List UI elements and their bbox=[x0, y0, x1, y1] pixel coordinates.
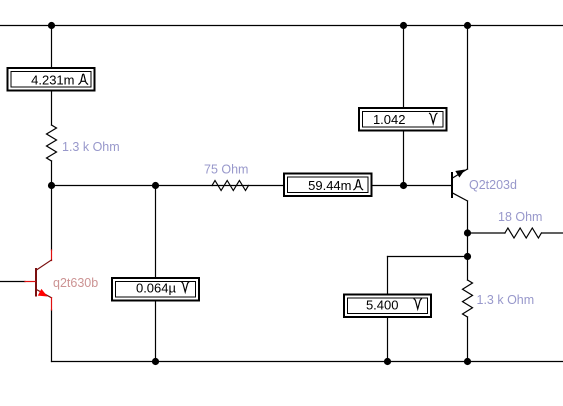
svg-text:1.3 k Ohm: 1.3 k Ohm bbox=[477, 293, 535, 307]
svg-text:4.231m: 4.231m bbox=[31, 73, 74, 88]
svg-text:18 Ohm: 18 Ohm bbox=[498, 210, 542, 224]
svg-text:q2t630b: q2t630b bbox=[53, 276, 98, 290]
svg-text:5.400: 5.400 bbox=[366, 298, 399, 313]
svg-text:Q2t203d: Q2t203d bbox=[469, 178, 517, 192]
svg-text:75 Ohm: 75 Ohm bbox=[204, 163, 248, 177]
svg-text:59.44m: 59.44m bbox=[308, 178, 351, 193]
svg-text:1.042: 1.042 bbox=[373, 112, 406, 127]
svg-text:0.064µ: 0.064µ bbox=[136, 281, 177, 296]
svg-text:1.3 k Ohm: 1.3 k Ohm bbox=[62, 140, 120, 154]
